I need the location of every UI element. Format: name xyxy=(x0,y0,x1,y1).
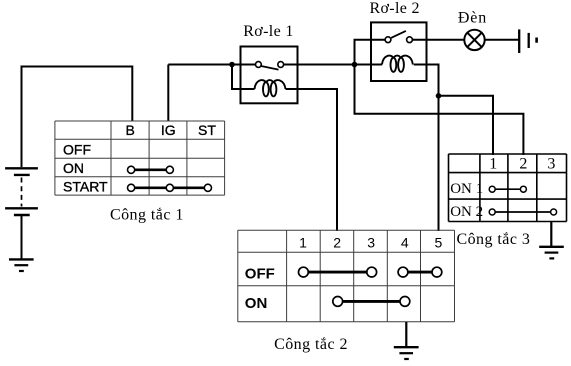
svg-text:1: 1 xyxy=(299,235,307,251)
svg-text:3: 3 xyxy=(547,156,555,173)
svg-text:Công tắc 3: Công tắc 3 xyxy=(456,231,530,248)
svg-text:Công tắc 2: Công tắc 2 xyxy=(274,336,348,353)
svg-text:Rơ-le 1: Rơ-le 1 xyxy=(243,23,293,40)
svg-text:Đèn: Đèn xyxy=(458,10,487,27)
svg-text:B: B xyxy=(126,122,135,138)
svg-text:2: 2 xyxy=(519,156,527,173)
svg-text:OFF: OFF xyxy=(63,142,91,158)
svg-text:START: START xyxy=(63,178,108,194)
svg-text:ST: ST xyxy=(198,122,216,138)
svg-text:OFF: OFF xyxy=(245,266,275,283)
svg-text:ON 2: ON 2 xyxy=(450,204,483,220)
svg-text:Công tắc 1: Công tắc 1 xyxy=(110,207,184,224)
svg-text:2: 2 xyxy=(333,235,341,251)
svg-text:5: 5 xyxy=(435,235,443,251)
svg-text:ON: ON xyxy=(63,160,84,176)
svg-text:1: 1 xyxy=(489,156,497,173)
svg-text:IG: IG xyxy=(161,122,176,138)
svg-text:ON 1: ON 1 xyxy=(450,181,483,197)
svg-text:Rơ-le 2: Rơ-le 2 xyxy=(369,0,419,17)
svg-text:4: 4 xyxy=(401,235,409,251)
svg-text:ON: ON xyxy=(245,295,267,312)
svg-text:3: 3 xyxy=(367,235,375,251)
